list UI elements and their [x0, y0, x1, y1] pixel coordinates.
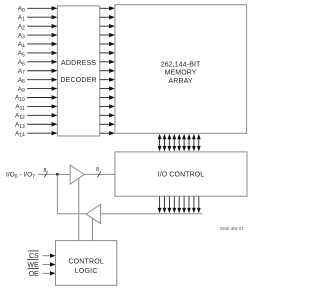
OE input — [28, 269, 56, 278]
bidirectional wire array/io 1 — [163, 134, 167, 152]
I/O control block — [115, 152, 247, 196]
output data bus wire — [101, 213, 202, 215]
address input A9 — [18, 86, 58, 94]
svg-text:8: 8 — [43, 168, 46, 174]
memory array block — [115, 5, 247, 134]
control logic block — [56, 241, 117, 286]
bidirectional wire array/io 8 — [197, 134, 201, 152]
wire io control to output bus 4 — [177, 196, 181, 213]
wire decoder to array 2 — [100, 24, 115, 28]
bus width slash 8 internal — [96, 167, 101, 177]
input buffer enable wire — [78, 178, 80, 240]
bus width slash 8 input — [43, 168, 47, 177]
svg-text:DECODER: DECODER — [60, 77, 96, 84]
wire decoder to array 6 — [100, 60, 115, 64]
address input A5 — [18, 50, 58, 58]
wire decoder to array 12 — [100, 113, 115, 117]
bidirectional wire array/io 0 — [158, 134, 162, 152]
wire decoder to array 7 — [100, 69, 115, 73]
address input A1 — [18, 14, 58, 22]
svg-text:OE: OE — [29, 271, 39, 278]
address input A11 — [15, 104, 57, 112]
wire io control to output bus 7 — [192, 196, 196, 213]
node io junction — [56, 173, 59, 176]
wire junction to output bus — [57, 174, 86, 213]
address input A10 — [15, 95, 57, 103]
wire decoder to array 5 — [100, 51, 115, 55]
wire io control to output bus 0 — [158, 196, 162, 213]
wire io control to output bus 3 — [172, 196, 176, 213]
address input A2 — [18, 23, 58, 31]
address input A8 — [18, 77, 58, 85]
output buffer — [86, 204, 101, 223]
svg-text:MEMORY: MEMORY — [165, 70, 197, 77]
bidirectional wire array/io 4 — [177, 134, 181, 152]
address decoder U1 — [57, 6, 99, 136]
svg-text:ARRAY: ARRAY — [169, 78, 193, 85]
wire decoder to array 8 — [100, 77, 115, 81]
wire decoder to array 10 — [100, 95, 115, 99]
bidirectional wire array/io 2 — [168, 134, 172, 152]
wire io control to output bus 1 — [163, 196, 167, 213]
wire io control to output bus 5 — [182, 196, 186, 213]
bidirectional wire array/io 6 — [187, 134, 191, 152]
wire decoder to array 9 — [100, 86, 115, 90]
wire io control to output bus 8 — [197, 196, 201, 213]
address input A4 — [18, 41, 58, 49]
svg-text:CONTROL: CONTROL — [68, 259, 104, 266]
wire decoder to array 14 — [100, 131, 115, 135]
bidirectional wire array/io 7 — [192, 134, 196, 152]
svg-text:8: 8 — [96, 167, 99, 173]
svg-text:2948 drw 01: 2948 drw 01 — [220, 226, 244, 231]
wire decoder to array 0 — [100, 6, 115, 10]
wire io control to output bus 2 — [168, 196, 172, 213]
io input wire — [38, 173, 70, 175]
svg-text:I/O CONTROL: I/O CONTROL — [158, 171, 205, 178]
svg-text:LOGIC: LOGIC — [75, 268, 98, 275]
svg-text:WE: WE — [27, 262, 39, 269]
bidirectional wire array/io 5 — [182, 134, 186, 152]
address input A13 — [15, 121, 57, 129]
wire io control to output bus 6 — [187, 196, 191, 213]
address input A3 — [18, 32, 58, 40]
output buffer enable wire — [92, 219, 94, 241]
svg-text:ADDRESS: ADDRESS — [61, 60, 96, 67]
address input A12 — [15, 113, 57, 121]
input buffer — [70, 165, 84, 184]
wire input buffer to io control — [84, 173, 115, 175]
wire decoder to array 3 — [100, 33, 115, 37]
wire decoder to array 4 — [100, 42, 115, 46]
wire decoder to array 11 — [100, 104, 115, 108]
bidirectional wire array/io 3 — [172, 134, 176, 152]
address input A0 — [18, 6, 58, 14]
wire decoder to array 1 — [100, 15, 115, 19]
wire decoder to array 13 — [100, 122, 115, 126]
svg-text:262,144-BIT: 262,144-BIT — [161, 61, 201, 68]
address input A7 — [18, 68, 58, 76]
address input A14 — [15, 130, 57, 138]
CS input — [28, 251, 56, 260]
address input A6 — [18, 59, 58, 67]
WE input — [27, 260, 56, 269]
svg-text:CS: CS — [29, 253, 39, 260]
